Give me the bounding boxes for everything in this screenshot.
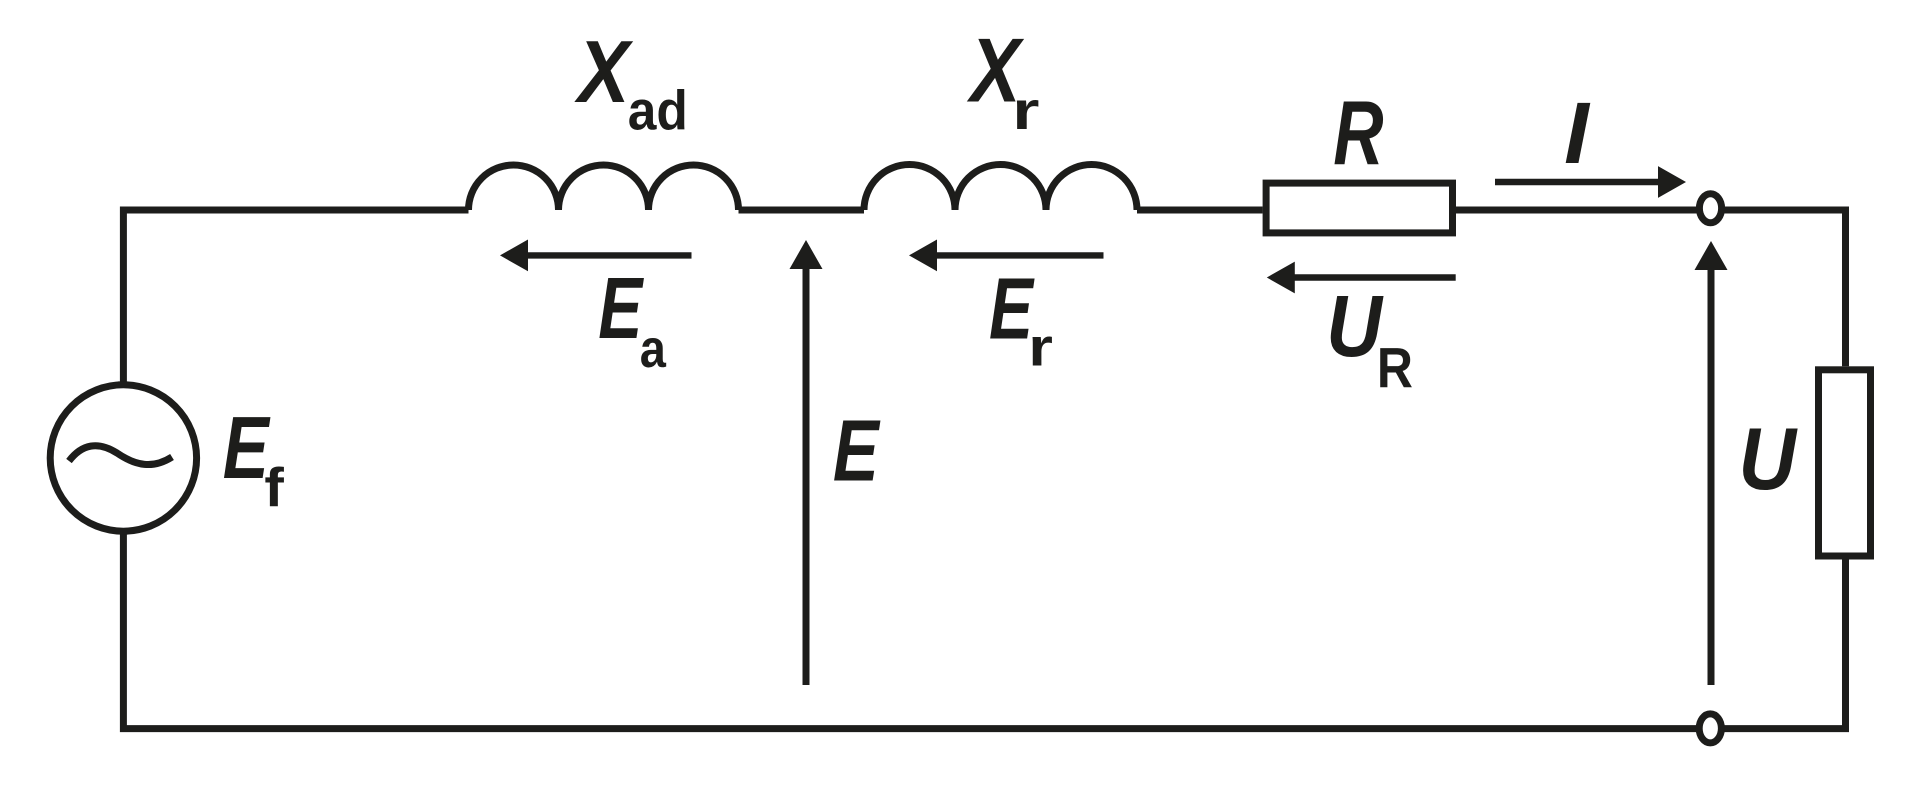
- svg-text:E: E: [833, 401, 881, 499]
- ac source Ef circle: [50, 385, 196, 531]
- svg-text:f: f: [264, 457, 284, 518]
- svg-text:E: E: [598, 260, 644, 357]
- resistor R: [1266, 183, 1452, 233]
- svg-text:X: X: [574, 22, 634, 121]
- label R: [1333, 83, 1383, 184]
- arrow Er: [909, 240, 1104, 272]
- svg-text:r: r: [1012, 81, 1039, 142]
- svg-text:R: R: [1377, 338, 1413, 401]
- svg-text:a: a: [640, 318, 667, 379]
- svg-text:U: U: [1326, 279, 1384, 375]
- wire resistor to top-right corner: [1456, 210, 1846, 366]
- svg-text:U: U: [1738, 409, 1798, 508]
- arrow E vertical: [790, 240, 823, 685]
- wire top-left run: [123, 210, 468, 382]
- arrow I: [1495, 166, 1686, 198]
- wire bottom run: [123, 534, 1845, 729]
- terminal bottom: [1699, 714, 1721, 743]
- wire between inductors: [739, 207, 865, 214]
- terminal top: [1699, 194, 1721, 223]
- svg-text:r: r: [1028, 318, 1053, 377]
- label Ea: [598, 260, 644, 357]
- ac source sine wave: [69, 446, 172, 465]
- load resistor U: [1819, 370, 1871, 556]
- wire inductor to resistor: [1137, 207, 1263, 214]
- label U: [1738, 409, 1798, 508]
- arrow Ea: [500, 240, 692, 272]
- svg-text:R: R: [1333, 83, 1383, 184]
- inductor Xr: [864, 165, 1137, 211]
- label E: [833, 401, 881, 499]
- label Er: [989, 261, 1035, 358]
- arrow UR: [1267, 262, 1456, 294]
- svg-text:ad: ad: [628, 80, 688, 142]
- arrow U vertical: [1695, 241, 1728, 685]
- label UR: [1326, 279, 1384, 375]
- label Xad: [574, 22, 634, 121]
- svg-text:I: I: [1564, 83, 1590, 181]
- label Ef: [223, 399, 271, 497]
- inductor Xad: [469, 165, 739, 210]
- label I: [1564, 83, 1590, 181]
- label Xr: [967, 19, 1025, 121]
